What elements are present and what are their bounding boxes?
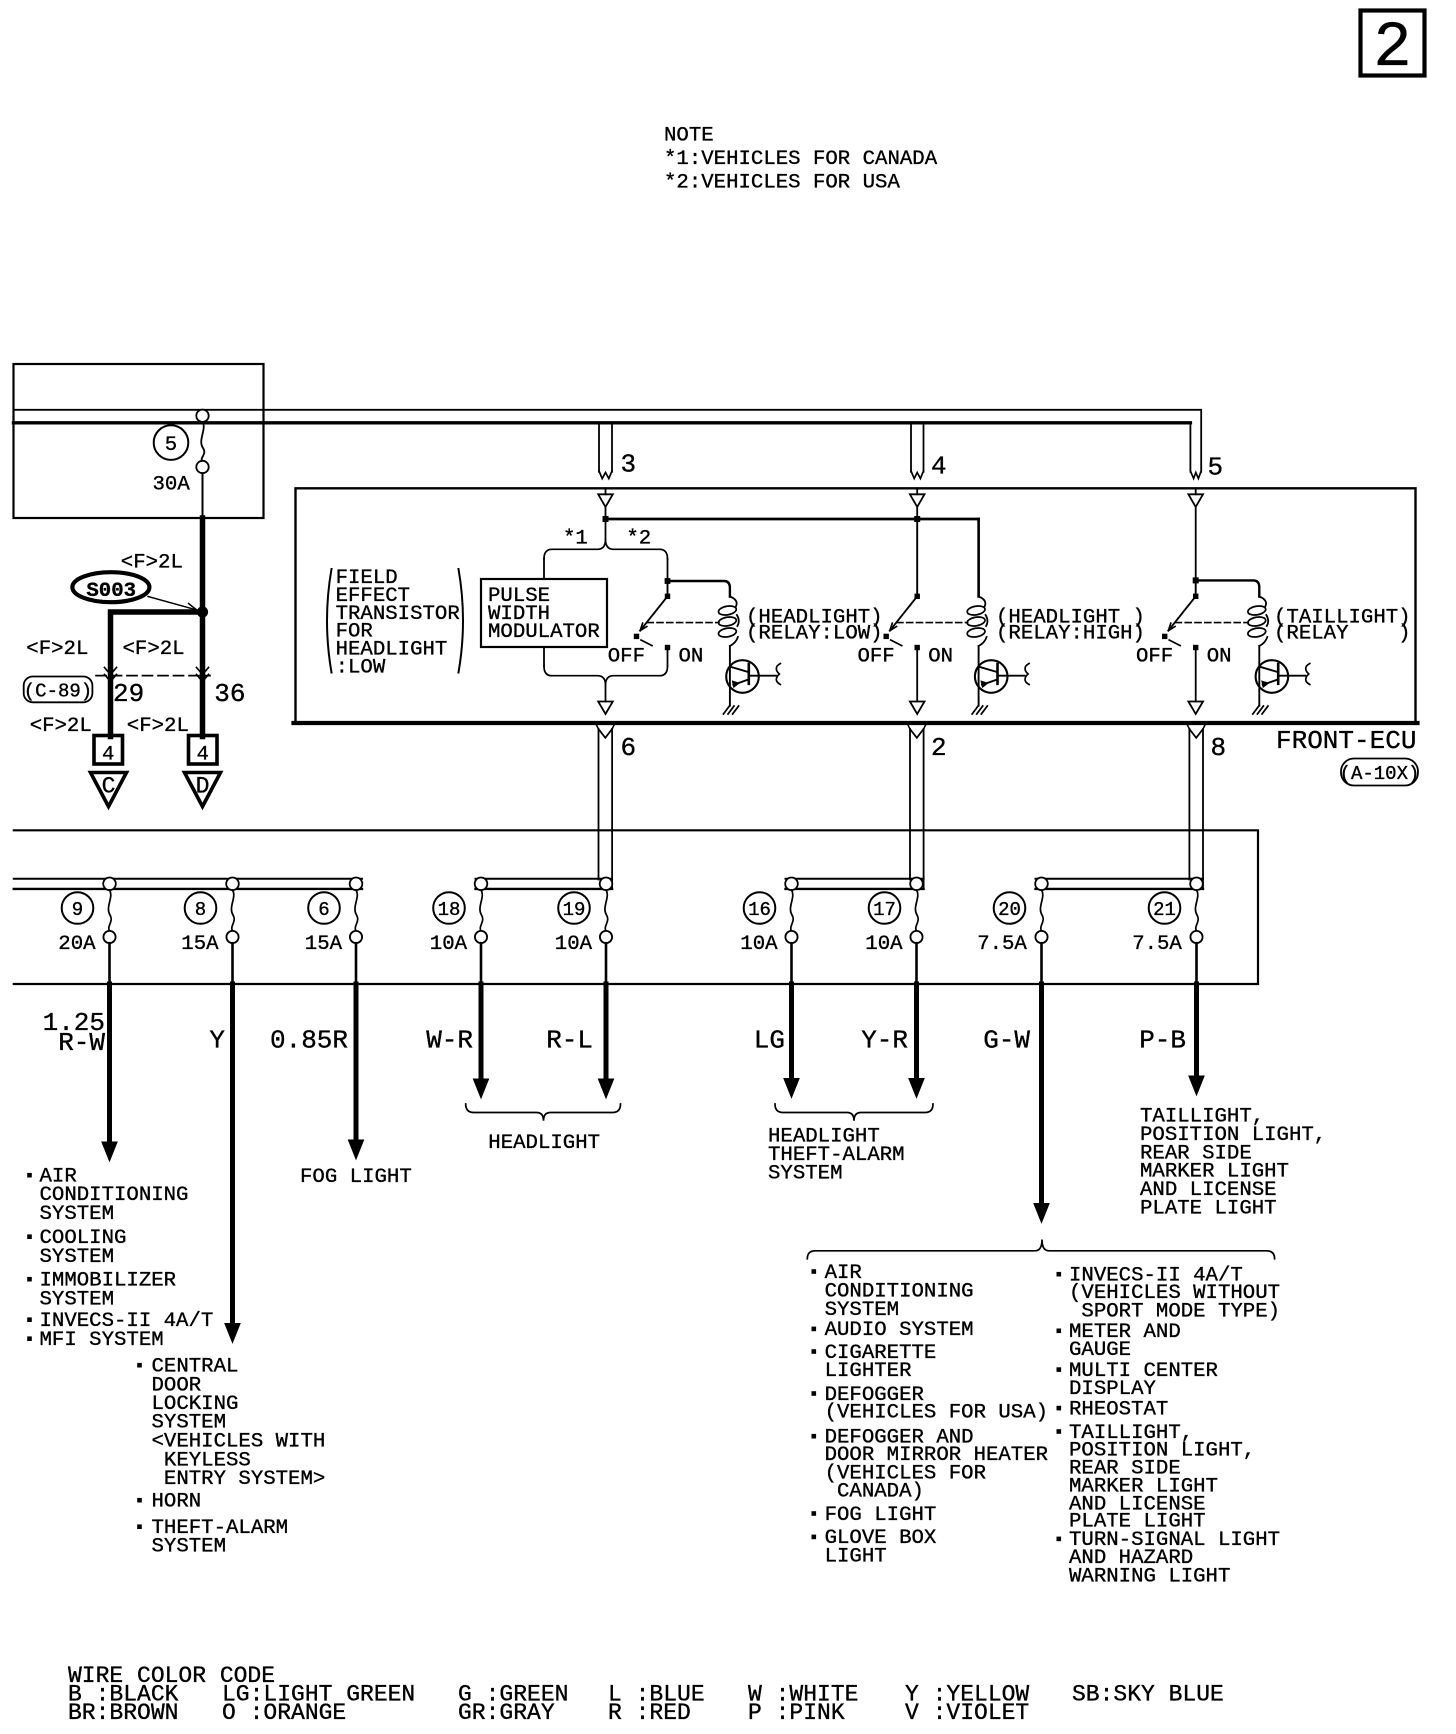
svg-text:W-R: W-R (426, 1026, 473, 1056)
relay headlight-low coil feed (665, 578, 671, 584)
FET branch wire *1 (543, 559, 545, 579)
relay headlight-low dashed link (647, 622, 719, 624)
svg-text:36: 36 (214, 679, 245, 709)
fuse 21 7.5A (1190, 878, 1203, 891)
svg-text:ON: ON (679, 646, 704, 669)
svg-text:2: 2 (931, 733, 947, 763)
svg-text:7.5A: 7.5A (1132, 933, 1182, 956)
svg-text:SYSTEM: SYSTEM (40, 1289, 115, 1312)
svg-text:SB:SKY BLUE: SB:SKY BLUE (1072, 1682, 1224, 1708)
svg-text:(RELAY:LOW): (RELAY:LOW) (746, 623, 883, 646)
svg-text:AUDIO SYSTEM: AUDIO SYSTEM (825, 1319, 974, 1342)
svg-text:SYSTEM: SYSTEM (40, 1203, 115, 1226)
wire bus thin top line to connector 5 (14, 410, 1202, 472)
svg-text:BR:BROWN: BR:BROWN (68, 1700, 178, 1726)
wire pin4 junction to contact high (916, 519, 918, 596)
fusible link box (14, 364, 264, 518)
transistor relay low (729, 646, 731, 706)
fuse 6 15A (350, 878, 363, 891)
svg-text:17: 17 (873, 899, 896, 921)
transistor relay taillight (1258, 646, 1260, 706)
relay headlight-low switch (665, 594, 670, 599)
svg-text::LOW: :LOW (336, 657, 386, 680)
connector 6 (598, 729, 600, 880)
svg-text:15A: 15A (305, 933, 343, 956)
pin 6 exit arrow (598, 702, 613, 715)
svg-text:Y-R: Y-R (861, 1026, 908, 1056)
relay headlight-low coil (668, 581, 730, 597)
svg-text:9: 9 (72, 899, 83, 921)
wire W-R (479, 984, 484, 1080)
svg-text:5: 5 (1208, 453, 1224, 483)
wire R-L (604, 984, 609, 1080)
connector 3 (598, 424, 600, 472)
brace headlight (466, 1104, 621, 1121)
node splice dot (197, 606, 208, 617)
svg-text:SYSTEM: SYSTEM (152, 1536, 227, 1559)
fuse 9 20A (103, 878, 116, 891)
svg-text:ENTRY SYSTEM>: ENTRY SYSTEM> (152, 1468, 326, 1491)
svg-text:SYSTEM: SYSTEM (40, 1246, 115, 1269)
bus bar C (786, 878, 924, 880)
transistor relay high (978, 646, 980, 706)
pin 4 entry arrow (916, 488, 918, 494)
wire P-B (1194, 984, 1199, 1077)
G-W system list left column (812, 1269, 817, 1274)
svg-text:*1:VEHICLES FOR CANADA: *1:VEHICLES FOR CANADA (664, 148, 938, 171)
bus bar D (1036, 878, 1204, 880)
svg-text:15A: 15A (181, 933, 219, 956)
branch brace top *1 *2 (605, 519, 607, 539)
svg-text:FOG LIGHT: FOG LIGHT (825, 1504, 937, 1527)
chevron marks right wire (197, 668, 209, 675)
svg-text:S003: S003 (86, 580, 136, 603)
fuse 19 10A (600, 878, 613, 891)
branch brace bottom to pin 6 (544, 666, 668, 685)
svg-text:OFF: OFF (857, 646, 894, 669)
svg-text:20A: 20A (58, 933, 96, 956)
svg-text:P-B: P-B (1139, 1026, 1186, 1056)
svg-text:NOTE: NOTE (664, 125, 714, 148)
wire Y-R (914, 984, 919, 1080)
svg-text:(RELAY ): (RELAY ) (1274, 623, 1411, 646)
wire 0.85R (354, 984, 359, 1141)
brace headlight theft-alarm (775, 1104, 933, 1121)
svg-text:PLATE LIGHT: PLATE LIGHT (1140, 1198, 1277, 1221)
bus bar B (476, 878, 613, 880)
pulse width modulator box (481, 579, 607, 647)
svg-text:V :VIOLET: V :VIOLET (905, 1700, 1029, 1726)
svg-text:19: 19 (563, 899, 586, 921)
wire LG (789, 984, 794, 1080)
wire bus thick line to connector 5 (14, 421, 1191, 424)
svg-text:HORN: HORN (152, 1491, 202, 1514)
fuse 18 10A (475, 878, 488, 891)
svg-text:ON: ON (1207, 646, 1232, 669)
internal bus pins 3-4 (606, 518, 979, 521)
svg-text:SPORT MODE TYPE): SPORT MODE TYPE) (1069, 1300, 1280, 1323)
wire G-W (1039, 984, 1044, 1205)
fuse 16 10A (785, 878, 798, 891)
connector C-89 label (24, 677, 93, 703)
svg-text:R-L: R-L (546, 1026, 593, 1056)
relay headlight-high dashed link (897, 622, 968, 624)
pin 8 exit arrow (1188, 702, 1203, 715)
svg-text:21: 21 (1153, 899, 1176, 921)
svg-text:OFF: OFF (608, 646, 645, 669)
svg-text:10A: 10A (740, 933, 778, 956)
connector 5 chevron (1190, 471, 1201, 479)
svg-text:20: 20 (998, 899, 1021, 921)
R-W system list (27, 1173, 32, 1178)
wire switch tail to pin8 (1195, 650, 1197, 702)
svg-text:10A: 10A (865, 933, 903, 956)
branch wire *2 (667, 559, 669, 581)
svg-text:R :RED: R :RED (608, 1700, 691, 1726)
svg-text:*2:VEHICLES FOR USA: *2:VEHICLES FOR USA (664, 172, 900, 195)
svg-text:O :ORANGE: O :ORANGE (222, 1700, 346, 1726)
wire fusible link feed (200, 518, 206, 612)
connector 4 (910, 424, 912, 472)
off-page connector D (185, 773, 221, 807)
FRONT-ECU box (296, 488, 1416, 723)
svg-text:8: 8 (1211, 733, 1227, 763)
svg-text:30A: 30A (153, 474, 191, 497)
junction dot pin4 (914, 516, 920, 522)
svg-text:GAUGE: GAUGE (1069, 1339, 1131, 1362)
svg-text:*2: *2 (626, 528, 651, 551)
svg-text:10A: 10A (430, 933, 468, 956)
relay taillight coil (1196, 580, 1260, 596)
fuse 5 30A (196, 410, 208, 422)
svg-text:8: 8 (195, 899, 206, 921)
svg-text:CANADA): CANADA) (825, 1481, 924, 1504)
connector 2 (909, 729, 911, 880)
wire tail junction to contact (1195, 580, 1197, 596)
svg-text:16: 16 (748, 899, 771, 921)
svg-text:SYSTEM: SYSTEM (768, 1163, 843, 1186)
svg-text:C: C (102, 774, 116, 800)
svg-text:WARNING LIGHT: WARNING LIGHT (1069, 1565, 1230, 1588)
splice S003 (72, 572, 149, 602)
svg-text:<F>2L: <F>2L (30, 715, 92, 738)
bus bar A (14, 878, 362, 880)
Y system list (137, 1363, 142, 1368)
svg-text:*1: *1 (563, 528, 588, 551)
connector C-89 dashed boundary (96, 675, 210, 677)
svg-text:(A-10X): (A-10X) (1340, 763, 1420, 785)
svg-text:P :PINK: P :PINK (748, 1700, 845, 1726)
svg-text:4: 4 (196, 744, 208, 767)
junction dot pin3 (603, 516, 609, 522)
wire switch low to pin6 brace (667, 650, 669, 666)
svg-text:LIGHT: LIGHT (825, 1545, 887, 1568)
G-W system list right column (1057, 1272, 1062, 1277)
wire branch left (111, 612, 203, 737)
svg-text:6: 6 (621, 733, 637, 763)
svg-text:MODULATOR: MODULATOR (488, 621, 600, 644)
svg-text:<F>2L: <F>2L (26, 638, 88, 661)
pin 3 entry arrow (605, 488, 607, 494)
fuse 20 7.5A (1035, 878, 1048, 891)
svg-text:2: 2 (1373, 13, 1411, 85)
svg-text:<F>2L: <F>2L (127, 715, 189, 738)
svg-text:D: D (196, 774, 210, 800)
svg-text:5: 5 (165, 434, 177, 457)
callout arrow S003 to node (148, 597, 195, 610)
connector A-10X label (1341, 759, 1418, 786)
svg-text:RHEOSTAT: RHEOSTAT (1069, 1398, 1168, 1421)
off-page connector C (91, 773, 127, 807)
svg-text:<F>2L: <F>2L (121, 552, 183, 575)
wire node to contact low (667, 581, 669, 596)
svg-text:4: 4 (102, 744, 114, 767)
pin 2 exit arrow (910, 702, 925, 715)
svg-text:FOG LIGHT: FOG LIGHT (300, 1166, 412, 1189)
svg-text:G-W: G-W (983, 1026, 1030, 1056)
feed wire relay high (977, 519, 979, 596)
svg-text:3: 3 (621, 450, 637, 480)
wire R-W (107, 984, 112, 1143)
page number box 2 (1361, 11, 1425, 76)
svg-text:(RELAY:HIGH): (RELAY:HIGH) (996, 623, 1145, 646)
relay headlight-high coil (977, 519, 979, 597)
junction block box (14, 830, 1258, 984)
wire Y (230, 984, 235, 1325)
fuse 8 15A (226, 878, 239, 891)
svg-text:LIGHTER: LIGHTER (825, 1360, 912, 1383)
svg-text:6: 6 (318, 899, 329, 921)
pin 5 entry arrow (1195, 488, 1197, 494)
fuse 17 10A (910, 878, 923, 891)
svg-text:4: 4 (931, 452, 947, 482)
relay headlight-high switch (915, 594, 920, 599)
svg-text:MFI SYSTEM: MFI SYSTEM (40, 1329, 164, 1352)
relay taillight junction (1193, 577, 1199, 583)
terminal 4 box left (94, 736, 123, 765)
terminal 4 box right (189, 736, 218, 765)
svg-text:Y: Y (209, 1026, 225, 1056)
relay taillight dashed link (1175, 622, 1248, 624)
svg-text:29: 29 (113, 679, 144, 709)
svg-text:10A: 10A (555, 933, 593, 956)
relay taillight switch (1193, 594, 1198, 599)
connector 8 (1188, 729, 1190, 880)
svg-text:(VEHICLES FOR USA): (VEHICLES FOR USA) (825, 1402, 1048, 1425)
svg-text:ON: ON (928, 646, 953, 669)
svg-text:(C-89): (C-89) (24, 681, 92, 703)
svg-text:FRONT-ECU: FRONT-ECU (1276, 726, 1416, 756)
svg-text:GR:GRAY: GR:GRAY (458, 1700, 555, 1726)
chevron marks left wire (105, 668, 117, 675)
wire branch right (200, 612, 206, 737)
wire switch high to pin2 (916, 650, 918, 702)
svg-text:18: 18 (438, 899, 461, 921)
brace G-W systems (807, 1240, 1274, 1259)
svg-text:OFF: OFF (1136, 646, 1173, 669)
svg-text:R-W: R-W (58, 1028, 105, 1058)
svg-text:0.85R: 0.85R (270, 1026, 348, 1056)
svg-text:LG: LG (754, 1026, 785, 1056)
svg-text:7.5A: 7.5A (977, 933, 1027, 956)
svg-text:HEADLIGHT: HEADLIGHT (488, 1132, 600, 1155)
svg-text:<F>2L: <F>2L (123, 638, 185, 661)
